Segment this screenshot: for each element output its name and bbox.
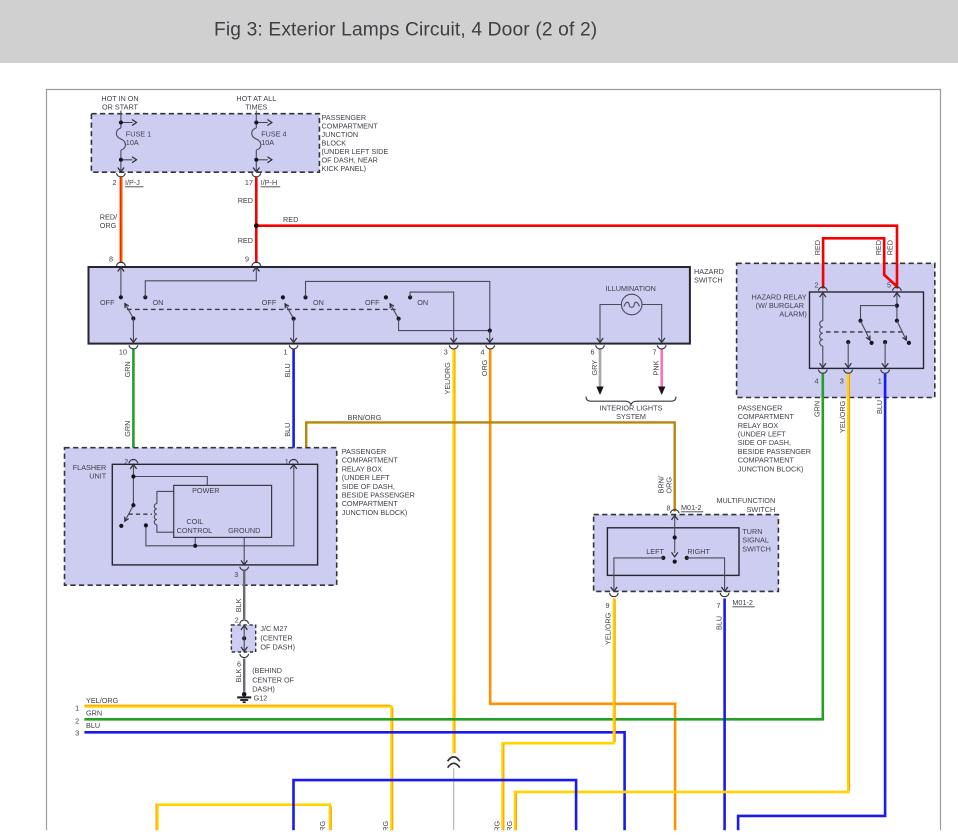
svg-text:GRN: GRN <box>123 421 132 437</box>
svg-text:I/P-H: I/P-H <box>261 178 278 187</box>
flasher pin 3 exit <box>234 567 248 579</box>
relay linkage dashed <box>826 331 903 333</box>
passenger compartment junction block box <box>91 114 319 173</box>
turn signal switch inner box <box>607 528 739 576</box>
multifunction bottom pins <box>605 593 754 610</box>
pin 17 exit of junction block <box>253 168 259 172</box>
flasher unit box <box>65 448 337 586</box>
svg-text:BLU: BLU <box>283 363 292 377</box>
svg-text:JUNCTION BLOCK): JUNCTION BLOCK) <box>738 464 804 473</box>
wire hot feed into fuse 4 <box>256 111 268 171</box>
fuse F1 symbol <box>116 128 125 150</box>
svg-text:BESIDE PASSENGER: BESIDE PASSENGER <box>342 491 415 500</box>
svg-text:2: 2 <box>235 615 239 624</box>
junction connector J/C M27 <box>231 615 295 668</box>
svg-text:4: 4 <box>480 348 484 357</box>
page bottom cut <box>0 830 958 839</box>
left connector row 2 GRN <box>75 401 821 726</box>
title bar <box>0 0 958 63</box>
left connector row 1 YEL/ORG <box>75 696 393 839</box>
svg-text:PNK: PNK <box>652 360 661 375</box>
wire RED fuse4 to hazard switch pin 9 <box>238 178 257 264</box>
svg-text:RIGHT: RIGHT <box>687 547 710 556</box>
left connector row 3 BLU <box>75 721 624 831</box>
svg-text:BLU: BLU <box>714 616 723 630</box>
hazard switch box <box>89 267 690 344</box>
ground G12 <box>237 692 267 703</box>
illumination lamp <box>597 284 665 342</box>
svg-text:BLU: BLU <box>875 400 884 414</box>
pin 9 entry <box>245 255 261 272</box>
svg-text:RED: RED <box>238 196 253 205</box>
svg-text:SWITCH: SWITCH <box>747 505 776 514</box>
svg-text:GRN: GRN <box>123 361 132 377</box>
svg-text:OFF: OFF <box>365 298 380 307</box>
hazard switch label <box>694 267 724 285</box>
svg-text:SYSTEM: SYSTEM <box>616 412 646 421</box>
svg-text:KICK PANEL): KICK PANEL) <box>322 164 367 173</box>
wire GRN hazard pin10 to flasher pin2 <box>123 350 133 461</box>
svg-text:YEL/ORG: YEL/ORG <box>443 362 452 395</box>
svg-text:CONTROL: CONTROL <box>177 526 212 535</box>
svg-text:4: 4 <box>814 376 818 385</box>
wire BLU relay pin1 to bottom <box>738 374 885 831</box>
svg-text:ORG: ORG <box>100 221 117 230</box>
svg-text:PASSENGER: PASSENGER <box>738 403 783 412</box>
svg-text:7: 7 <box>716 601 720 610</box>
svg-text:ALARM): ALARM) <box>779 310 806 319</box>
multifunction switch label <box>717 496 776 514</box>
svg-text:ILLUMINATION: ILLUMINATION <box>606 284 656 293</box>
turn signal switch internals <box>611 516 728 592</box>
flasher coil <box>154 504 157 525</box>
svg-text:3: 3 <box>234 570 238 579</box>
svg-text:M01-2: M01-2 <box>681 503 702 512</box>
flasher switch contacts <box>131 474 135 478</box>
svg-text:BLU: BLU <box>283 423 292 437</box>
svg-text:(W/ BURGLAR: (W/ BURGLAR <box>756 301 804 310</box>
wire RED feed to hazard relay pin 5 <box>256 215 897 289</box>
wire BLK J/C M27 to ground <box>234 659 295 694</box>
flasher internal wiring <box>125 466 294 564</box>
flasher relay module box <box>174 485 272 537</box>
svg-text:RED: RED <box>813 240 822 255</box>
multifunction switch box <box>667 503 704 513</box>
svg-text:DASH): DASH) <box>252 685 275 694</box>
svg-text:POWER: POWER <box>192 486 219 495</box>
svg-text:6: 6 <box>590 348 594 357</box>
svg-text:TIMES: TIMES <box>245 103 267 112</box>
svg-text:SIDE OF DASH,: SIDE OF DASH, <box>738 438 791 447</box>
svg-text:(CENTER: (CENTER <box>260 633 292 642</box>
svg-text:3: 3 <box>840 376 844 385</box>
svg-text:BLU: BLU <box>86 721 100 730</box>
wire BLK flasher pin3 to J/C M27 <box>234 571 244 619</box>
svg-text:2: 2 <box>124 457 128 466</box>
pin 2 exit of junction block <box>118 168 124 172</box>
wire YEL/ORG relay pin3 to bottom <box>505 374 850 839</box>
svg-text:J/C M27: J/C M27 <box>260 624 287 633</box>
flasher ground arrow to pin 3 <box>241 560 247 564</box>
flasher pin 1 entry <box>285 457 298 469</box>
passenger compartment relay box label (left) <box>342 447 415 517</box>
svg-text:RED: RED <box>238 236 253 245</box>
svg-text:ORG: ORG <box>480 359 489 376</box>
svg-text:COMPARTMENT: COMPARTMENT <box>342 456 399 465</box>
svg-text:M01-2: M01-2 <box>732 598 753 607</box>
svg-text:I/P-J: I/P-J <box>125 178 140 187</box>
svg-text:COMPARTMENT: COMPARTMENT <box>738 412 795 421</box>
svg-text:YEL/ORG: YEL/ORG <box>604 612 613 645</box>
svg-text:ON: ON <box>313 298 324 307</box>
wire BLU hazard pin1 to flasher pin1 <box>283 350 293 461</box>
junction node dot <box>254 223 259 228</box>
flasher linkage dashed <box>129 513 153 515</box>
svg-text:17: 17 <box>245 178 253 187</box>
svg-text:9: 9 <box>605 601 609 610</box>
pin 8 entry <box>109 255 125 272</box>
relay coil K1 <box>820 294 826 368</box>
svg-text:1: 1 <box>283 348 287 357</box>
wire BRN/ORG flasher pin1 to multifunction pin8 <box>295 413 674 512</box>
svg-text:G12: G12 <box>254 694 268 703</box>
svg-text:RED: RED <box>874 240 883 255</box>
svg-text:INTERIOR LIGHTS: INTERIOR LIGHTS <box>600 404 663 413</box>
wire PNK hazard pin7 to interior lights <box>652 350 666 396</box>
node HOT IN ON OR START <box>101 94 138 112</box>
svg-text:ON: ON <box>417 298 428 307</box>
svg-text:SIDE OF DASH,: SIDE OF DASH, <box>342 482 395 491</box>
svg-text:JUNCTION BLOCK): JUNCTION BLOCK) <box>342 508 408 517</box>
svg-text:OF DASH): OF DASH) <box>260 643 295 652</box>
svg-text:1: 1 <box>285 457 289 466</box>
fuse F4 value label <box>261 130 286 147</box>
svg-text:10: 10 <box>119 348 127 357</box>
svg-text:5: 5 <box>887 280 891 289</box>
svg-text:FLASHER: FLASHER <box>73 463 106 472</box>
hazard switch bottom pins <box>119 345 666 356</box>
hazard switch pole 1 <box>100 268 256 342</box>
wire BLU multifunction pin7 to bottom <box>714 599 724 832</box>
svg-text:YEL/ORG: YEL/ORG <box>86 696 119 705</box>
fuse F4 symbol <box>252 128 261 150</box>
hazard relay box <box>737 263 935 397</box>
svg-text:RED: RED <box>886 240 895 255</box>
svg-text:10A: 10A <box>261 138 274 147</box>
svg-text:COIL: COIL <box>186 517 203 526</box>
svg-text:GRY: GRY <box>590 360 599 376</box>
hazard relay inner box <box>810 292 924 368</box>
wire RED jumper relay pin 2 to pin 5 <box>813 238 897 288</box>
hazard switch pole 3 <box>365 292 490 342</box>
svg-text:UNIT: UNIT <box>89 472 106 481</box>
svg-text:HAZARD RELAY: HAZARD RELAY <box>752 292 807 301</box>
svg-text:(UNDER LEFT: (UNDER LEFT <box>342 473 391 482</box>
svg-text:TURN: TURN <box>742 527 762 536</box>
passenger compartment relay box label (right) <box>738 403 811 473</box>
switch linkage dashed <box>127 308 396 310</box>
svg-text:2: 2 <box>75 716 79 725</box>
svg-text:RELAY BOX: RELAY BOX <box>738 421 779 430</box>
wire YEL/ORG multifunction pin9 to bottom <box>492 599 615 839</box>
wire YEL/ORG hazard pin3 down to chevron <box>443 350 455 754</box>
turn signal switch label <box>742 527 771 554</box>
svg-text:OR START: OR START <box>102 103 139 112</box>
svg-text:SIGNAL: SIGNAL <box>742 536 769 545</box>
svg-text:RED: RED <box>283 215 298 224</box>
hazard switch pole 2 <box>262 281 490 342</box>
svg-text:OFF: OFF <box>100 298 115 307</box>
svg-text:BRN/ORG: BRN/ORG <box>348 413 382 422</box>
svg-text:8: 8 <box>109 255 113 264</box>
svg-text:Fig 3: Exterior Lamps Circuit,: Fig 3: Exterior Lamps Circuit, 4 Door (2… <box>214 20 597 41</box>
relay pin 5 entry <box>887 280 901 297</box>
svg-text:COMPARTMENT: COMPARTMENT <box>738 456 795 465</box>
svg-text:COMPARTMENT: COMPARTMENT <box>342 499 399 508</box>
svg-text:RELAY BOX: RELAY BOX <box>342 464 383 473</box>
svg-text:BESIDE PASSENGER: BESIDE PASSENGER <box>738 447 811 456</box>
svg-text:SWITCH: SWITCH <box>742 544 771 553</box>
svg-text:CENTER OF: CENTER OF <box>252 675 294 684</box>
flasher inner box <box>112 464 317 565</box>
svg-text:MULTIFUNCTION: MULTIFUNCTION <box>717 496 776 505</box>
wire ORG hazard pin4 to bottom <box>480 350 675 832</box>
node pin4 tie <box>487 329 493 343</box>
svg-text:PASSENGER: PASSENGER <box>342 447 387 456</box>
hazard relay label <box>752 292 807 318</box>
svg-text:BLK: BLK <box>234 598 243 612</box>
flasher pin 2 entry <box>124 457 138 469</box>
relay bottom pins <box>814 370 889 386</box>
relay contacts <box>845 294 911 368</box>
svg-text:2: 2 <box>814 280 818 289</box>
svg-text:6: 6 <box>237 660 241 669</box>
junction block label <box>322 113 389 173</box>
svg-text:LEFT: LEFT <box>646 547 664 556</box>
wire RED/ORG fuse1 to hazard switch pin 8 <box>100 178 122 264</box>
svg-text:1: 1 <box>75 703 79 712</box>
svg-text:GROUND: GROUND <box>228 526 260 535</box>
svg-text:2: 2 <box>112 178 116 187</box>
svg-text:(BEHIND: (BEHIND <box>252 666 282 675</box>
wire BLU bottom U-run <box>294 780 577 831</box>
svg-text:3: 3 <box>444 348 448 357</box>
svg-text:10A: 10A <box>126 138 139 147</box>
svg-text:BLK: BLK <box>234 669 243 683</box>
chevron off-page connector <box>448 757 460 831</box>
svg-text:ON: ON <box>153 298 164 307</box>
fuse F1 value label <box>126 130 151 147</box>
wire GRN relay pin4 vertical <box>821 374 824 721</box>
wire YEL/ORG bottom U-run <box>156 804 331 839</box>
svg-text:SWITCH: SWITCH <box>694 275 723 284</box>
svg-text:GRN: GRN <box>86 709 102 718</box>
svg-text:3: 3 <box>75 729 79 738</box>
svg-text:9: 9 <box>245 255 249 264</box>
flasher unit label <box>73 463 107 481</box>
relay pin 2 entry <box>814 280 827 297</box>
interior lights system brace <box>586 397 676 422</box>
svg-text:8: 8 <box>667 504 671 513</box>
wire hot feed into fuse 1 <box>121 111 133 171</box>
svg-text:GRN: GRN <box>813 401 822 417</box>
svg-text:ORG: ORG <box>665 477 674 494</box>
svg-text:7: 7 <box>652 348 656 357</box>
svg-text:YEL/ORG: YEL/ORG <box>838 400 847 433</box>
wire GRY hazard pin6 to interior lights <box>590 350 604 396</box>
svg-text:1: 1 <box>878 376 882 385</box>
node HOT AT ALL TIMES <box>236 94 276 112</box>
svg-text:(UNDER LEFT: (UNDER LEFT <box>738 430 787 439</box>
svg-text:OFF: OFF <box>262 298 277 307</box>
